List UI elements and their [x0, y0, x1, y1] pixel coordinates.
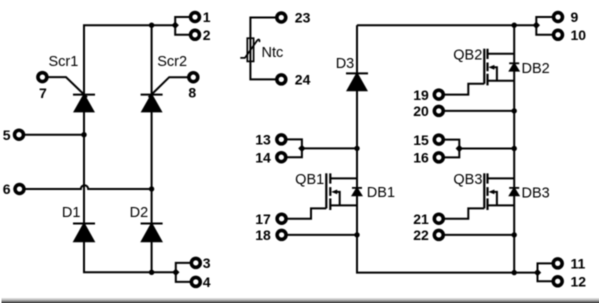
junction right rail top — [512, 23, 517, 28]
svg-text:12: 12 — [571, 274, 587, 290]
label D3 — [336, 56, 355, 72]
label 23 — [295, 10, 311, 26]
label DB1 — [367, 185, 395, 201]
terminal 18 — [277, 230, 286, 239]
junction D2 bottom — [149, 270, 154, 275]
label 10 — [571, 27, 587, 43]
label 1 — [203, 9, 211, 25]
label 4 — [203, 274, 211, 290]
label QB2 — [453, 47, 482, 63]
svg-text:3: 3 — [203, 255, 211, 271]
terminal 20 — [434, 106, 443, 115]
wire terminal 6 to Scr2 branch with hop over Scr1 branch — [25, 185, 151, 189]
baseplate bar — [2, 297, 599, 303]
label Scr2 — [157, 54, 187, 70]
terminal 10 — [554, 30, 563, 39]
thermistor Ntc — [240, 38, 259, 61]
terminal 16 — [434, 153, 443, 162]
junction 18 tap on D3 rail — [354, 232, 359, 237]
junction 15/16 tap on right rail — [512, 146, 517, 151]
label 14 — [255, 149, 271, 165]
label 19 — [413, 87, 429, 103]
terminal 23 — [277, 13, 286, 22]
svg-text:1: 1 — [203, 9, 211, 25]
label 7 — [39, 85, 47, 101]
svg-text:QB3: QB3 — [453, 172, 482, 188]
diode D2 — [141, 224, 163, 242]
junction 13/14 tap on D3 rail — [354, 146, 359, 151]
terminal 13 — [277, 135, 286, 144]
terminal 1 — [191, 13, 200, 22]
gate wire QB1 — [287, 208, 326, 218]
terminal 4 — [191, 277, 200, 286]
terminal 8 — [189, 73, 198, 82]
terminal 19 — [434, 90, 443, 99]
svg-text:24: 24 — [295, 72, 311, 88]
wire terminals 13/14 to D3 rail — [287, 139, 357, 157]
body diode DB1 — [352, 188, 362, 196]
gate wire QB2 — [445, 84, 485, 95]
svg-text:8: 8 — [188, 84, 196, 100]
wire right rail — [513, 25, 515, 272]
junction wire 5 on Scr1 branch — [81, 132, 86, 137]
svg-text:14: 14 — [255, 149, 271, 165]
svg-text:10: 10 — [571, 27, 587, 43]
label 13 — [255, 132, 271, 148]
terminal 7 — [38, 73, 47, 82]
terminal 22 — [434, 230, 443, 239]
svg-text:DB3: DB3 — [522, 186, 550, 202]
label 9 — [571, 9, 579, 25]
svg-text:Scr2: Scr2 — [157, 54, 187, 70]
junction 22 tap on right rail — [512, 232, 517, 237]
terminal 24 — [277, 75, 286, 84]
svg-text:19: 19 — [413, 87, 429, 103]
label 17 — [255, 211, 271, 227]
svg-text:9: 9 — [571, 9, 579, 25]
label QB3 — [453, 172, 482, 188]
terminal 21 — [434, 214, 443, 223]
thyristor Scr1 — [73, 95, 95, 112]
svg-text:22: 22 — [413, 227, 429, 243]
svg-text:18: 18 — [255, 227, 271, 243]
label 22 — [413, 227, 429, 243]
mosfet QB3 — [484, 173, 514, 210]
wire D3 top — [356, 25, 358, 73]
gate wire QB3 — [445, 208, 485, 218]
svg-text:5: 5 — [3, 127, 11, 143]
terminal 12 — [553, 277, 562, 286]
wire bottom-left net (D1/D2 anode bus) — [84, 242, 176, 273]
wire Scr2 cathode to D2 — [151, 112, 153, 224]
wire terminal 22 to right rail — [445, 234, 515, 236]
svg-text:QB2: QB2 — [453, 47, 482, 63]
wire Scr2 top branch — [151, 25, 153, 94]
label 20 — [413, 103, 429, 119]
svg-text:QB1: QB1 — [295, 172, 324, 188]
junction right rail bottom — [512, 270, 517, 275]
svg-text:D3: D3 — [336, 56, 355, 72]
svg-text:16: 16 — [413, 150, 429, 166]
wire D3 anode rail down to bottom-right bus — [357, 90, 538, 272]
label QB1 — [295, 172, 324, 188]
svg-text:13: 13 — [255, 132, 271, 148]
wire terminal 5 to Scr1 branch — [25, 134, 84, 136]
svg-text:Scr1: Scr1 — [49, 54, 79, 70]
label Scr1 — [49, 54, 79, 70]
svg-text:20: 20 — [413, 103, 429, 119]
diode D1 — [73, 224, 95, 242]
terminal 2 — [191, 30, 200, 39]
svg-text:DB2: DB2 — [522, 61, 550, 77]
mosfet QB2 — [484, 49, 514, 86]
label 3 — [203, 255, 211, 271]
label D2 — [130, 205, 149, 221]
label 11 — [571, 256, 586, 272]
junction wire 6 on Scr2 branch — [149, 186, 154, 191]
wire Scr1 cathode to D1 — [83, 112, 85, 224]
svg-text:17: 17 — [255, 211, 271, 227]
gate wire Scr2 — [149, 77, 188, 97]
body diode DB3 — [509, 188, 519, 196]
terminal 3 — [191, 258, 200, 267]
label DB2 — [522, 61, 550, 77]
thyristor Scr2 — [141, 95, 163, 112]
terminal 5 — [15, 130, 24, 139]
svg-text:7: 7 — [39, 85, 47, 101]
label 8 — [188, 84, 196, 100]
svg-text:2: 2 — [203, 27, 211, 43]
label Ntc — [262, 45, 284, 61]
terminal 11 — [553, 259, 562, 268]
label 16 — [413, 150, 429, 166]
svg-text:23: 23 — [295, 10, 311, 26]
node split to terminals 11 and 12 — [534, 263, 552, 281]
label 2 — [203, 27, 211, 43]
body diode DB2 — [509, 63, 519, 71]
wire terminals 15/16 to right rail — [445, 140, 515, 158]
junction Scr2 top — [149, 23, 154, 28]
svg-text:6: 6 — [3, 181, 11, 197]
terminal 14 — [277, 153, 286, 162]
svg-text:D2: D2 — [130, 205, 149, 221]
label DB3 — [522, 186, 550, 202]
wire terminal 18 to D3 rail — [287, 234, 357, 236]
label 12 — [571, 274, 587, 290]
terminal 9 — [554, 13, 563, 22]
label 21 — [413, 211, 429, 227]
node split to terminals 3 and 4 — [172, 263, 190, 282]
svg-text:11: 11 — [571, 256, 586, 272]
wire top-right net (D3 cathode bus to terminals 9/10) — [357, 24, 536, 26]
svg-text:21: 21 — [413, 211, 429, 227]
label D1 — [62, 205, 81, 221]
terminal 6 — [15, 185, 24, 194]
wire terminal 20 to right rail — [445, 110, 515, 112]
label 24 — [295, 72, 311, 88]
node split to terminals 1 and 2 — [172, 17, 190, 35]
node split to terminals 9 and 10 — [533, 17, 553, 35]
gate wire Scr1 — [48, 77, 87, 97]
svg-text:15: 15 — [413, 132, 429, 148]
label 5 — [3, 127, 11, 143]
label 6 — [3, 181, 11, 197]
terminal 17 — [277, 214, 286, 223]
mosfet QB1 — [326, 173, 357, 210]
svg-text:4: 4 — [203, 274, 211, 290]
svg-text:DB1: DB1 — [367, 185, 395, 201]
junction 20 tap on right rail — [512, 108, 517, 113]
wire top-left net (Scr1/Scr2 cathode bus to terminals 1/2) — [84, 25, 175, 95]
diode D3 — [346, 73, 368, 90]
terminal 15 — [434, 135, 443, 144]
label 15 — [413, 132, 429, 148]
svg-text:Ntc: Ntc — [262, 45, 284, 61]
wire NTC loop — [250, 18, 275, 80]
label 18 — [255, 227, 271, 243]
svg-text:D1: D1 — [62, 205, 81, 221]
